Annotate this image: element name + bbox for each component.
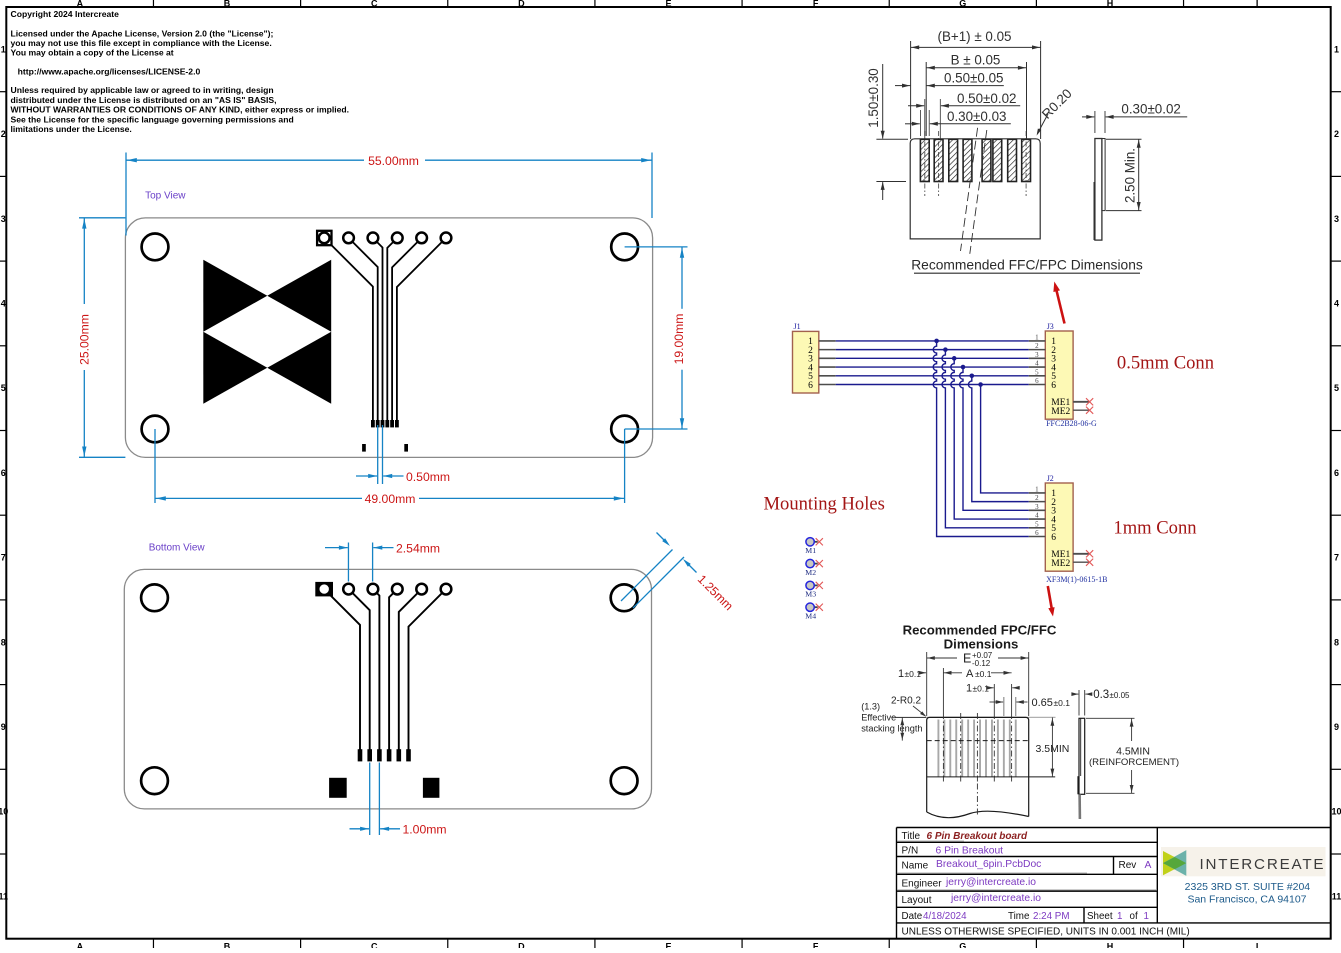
svg-text:B ± 0.05: B ± 0.05 bbox=[951, 53, 1001, 68]
svg-text:jerry@intercreate.io: jerry@intercreate.io bbox=[950, 893, 1041, 904]
svg-text:Sheet: Sheet bbox=[1087, 911, 1113, 922]
svg-text:1: 1 bbox=[1144, 911, 1149, 922]
svg-text:Effective: Effective bbox=[861, 713, 896, 723]
svg-text:http://www.apache.org/licenses: http://www.apache.org/licenses/LICENSE-2… bbox=[11, 67, 201, 77]
svg-text:E: E bbox=[963, 652, 971, 666]
svg-text:jerry@intercreate.io: jerry@intercreate.io bbox=[945, 877, 1036, 888]
svg-text:7: 7 bbox=[1334, 553, 1339, 563]
svg-text:Top View: Top View bbox=[145, 191, 186, 202]
svg-text:M1: M1 bbox=[805, 546, 816, 555]
svg-text:C: C bbox=[371, 942, 378, 949]
svg-text:You may obtain a copy of the L: You may obtain a copy of the License at bbox=[11, 48, 174, 58]
svg-text:1: 1 bbox=[1035, 333, 1039, 341]
svg-text:Layout: Layout bbox=[902, 895, 932, 906]
svg-text:ME2: ME2 bbox=[1051, 407, 1070, 417]
svg-text:0.30±0.02: 0.30±0.02 bbox=[1121, 102, 1180, 117]
svg-text:3: 3 bbox=[1334, 214, 1339, 224]
svg-text:4: 4 bbox=[1035, 360, 1039, 368]
svg-text:I: I bbox=[1256, 0, 1259, 9]
svg-text:3: 3 bbox=[1035, 503, 1039, 511]
svg-text:6: 6 bbox=[1334, 468, 1339, 478]
svg-text:6: 6 bbox=[1051, 381, 1056, 391]
svg-text:6: 6 bbox=[1, 468, 6, 478]
svg-text:D: D bbox=[518, 0, 525, 9]
svg-text:G: G bbox=[959, 942, 966, 949]
svg-text:E: E bbox=[665, 0, 671, 9]
svg-text:Licensed under the Apache Lice: Licensed under the Apache License, Versi… bbox=[11, 28, 274, 38]
svg-text:1: 1 bbox=[1117, 911, 1122, 922]
svg-text:Recommended FFC/FPC Dimensions: Recommended FFC/FPC Dimensions bbox=[911, 258, 1143, 273]
svg-text:25.00mm: 25.00mm bbox=[78, 314, 92, 365]
svg-text:6: 6 bbox=[1035, 377, 1039, 385]
svg-text:0.50±0.05: 0.50±0.05 bbox=[944, 71, 1003, 86]
svg-text:2325 3RD ST. SUITE #204: 2325 3RD ST. SUITE #204 bbox=[1185, 881, 1311, 893]
svg-text:5: 5 bbox=[1, 383, 6, 393]
svg-text:0.5mm Conn: 0.5mm Conn bbox=[1117, 352, 1215, 373]
svg-text:Name: Name bbox=[902, 861, 929, 872]
svg-text:(B+1) ± 0.05: (B+1) ± 0.05 bbox=[938, 29, 1012, 44]
svg-text:I: I bbox=[1256, 942, 1259, 949]
svg-text:1.00mm: 1.00mm bbox=[403, 823, 447, 837]
svg-text:Copyright 2024 Intercreate: Copyright 2024 Intercreate bbox=[11, 9, 120, 19]
svg-text:(REINFORCEMENT): (REINFORCEMENT) bbox=[1089, 757, 1179, 768]
svg-text:1: 1 bbox=[1, 44, 6, 54]
svg-text:Bottom View: Bottom View bbox=[149, 543, 206, 554]
svg-text:±0.1: ±0.1 bbox=[1054, 698, 1071, 708]
svg-text:1.50±0.30: 1.50±0.30 bbox=[866, 68, 881, 127]
svg-text:6: 6 bbox=[1035, 529, 1039, 537]
svg-text:1mm Conn: 1mm Conn bbox=[1113, 518, 1197, 539]
svg-text:Breakout_6pin.PcbDoc: Breakout_6pin.PcbDoc bbox=[936, 859, 1041, 870]
svg-text:55.00mm: 55.00mm bbox=[368, 154, 419, 168]
svg-text:49.00mm: 49.00mm bbox=[365, 492, 416, 506]
svg-text:Rev: Rev bbox=[1119, 860, 1137, 871]
svg-text:A: A bbox=[1145, 860, 1152, 871]
svg-text:2: 2 bbox=[1035, 342, 1039, 350]
svg-text:Time: Time bbox=[1008, 911, 1030, 922]
svg-text:F: F bbox=[813, 942, 819, 949]
svg-text:INTERCREATE: INTERCREATE bbox=[1200, 856, 1326, 873]
svg-text:WITHOUT WARRANTIES OR CONDITIO: WITHOUT WARRANTIES OR CONDITIONS OF ANY … bbox=[11, 105, 350, 115]
svg-text:UNLESS OTHERWISE SPECIFIED, UN: UNLESS OTHERWISE SPECIFIED, UNITS IN 0.0… bbox=[902, 927, 1190, 938]
svg-text:5: 5 bbox=[1035, 520, 1039, 528]
svg-text:J2: J2 bbox=[1047, 474, 1054, 483]
svg-text:(1.3): (1.3) bbox=[861, 702, 880, 712]
svg-text:J3: J3 bbox=[1047, 322, 1054, 331]
svg-text:1: 1 bbox=[898, 668, 904, 680]
svg-text:Recommended FPC/FFC: Recommended FPC/FFC bbox=[903, 623, 1057, 638]
svg-text:3: 3 bbox=[1035, 351, 1039, 359]
svg-text:0.30±0.03: 0.30±0.03 bbox=[947, 109, 1006, 124]
svg-text:4: 4 bbox=[1035, 512, 1039, 520]
svg-text:limitations under the License.: limitations under the License. bbox=[11, 124, 132, 134]
svg-text:San Francisco, CA 94107: San Francisco, CA 94107 bbox=[1187, 894, 1306, 906]
svg-text:P/N: P/N bbox=[902, 845, 919, 856]
svg-text:5: 5 bbox=[1334, 383, 1339, 393]
svg-text:D: D bbox=[518, 942, 525, 949]
svg-text:±0.05: ±0.05 bbox=[1110, 691, 1131, 700]
svg-text:M4: M4 bbox=[805, 611, 816, 620]
svg-text:6 Pin Breakout board: 6 Pin Breakout board bbox=[927, 831, 1028, 842]
svg-text:J1: J1 bbox=[794, 322, 801, 331]
svg-text:3: 3 bbox=[1, 214, 6, 224]
svg-text:4/18/2024: 4/18/2024 bbox=[923, 911, 967, 922]
svg-text:FFC2B28-06-G: FFC2B28-06-G bbox=[1046, 419, 1097, 428]
svg-text:2: 2 bbox=[1035, 494, 1039, 502]
svg-text:XF3M(1)-0615-1B: XF3M(1)-0615-1B bbox=[1046, 575, 1107, 584]
svg-text:stacking length: stacking length bbox=[861, 724, 922, 734]
svg-text:10: 10 bbox=[0, 807, 8, 817]
svg-text:2: 2 bbox=[1, 129, 6, 139]
svg-text:2.50 Min.: 2.50 Min. bbox=[1123, 148, 1138, 203]
svg-text:3.5MIN: 3.5MIN bbox=[1036, 743, 1070, 755]
svg-text:-0.12: -0.12 bbox=[972, 659, 991, 668]
svg-text:0.50mm: 0.50mm bbox=[406, 470, 450, 484]
svg-text:8: 8 bbox=[1334, 637, 1339, 647]
svg-text:9: 9 bbox=[1334, 722, 1339, 732]
svg-text:Dimensions: Dimensions bbox=[944, 637, 1019, 652]
svg-text:4: 4 bbox=[1, 298, 6, 308]
svg-text:6: 6 bbox=[1051, 533, 1056, 543]
svg-text:See the License for the specif: See the License for the specific languag… bbox=[11, 114, 294, 124]
svg-text:6: 6 bbox=[808, 381, 813, 391]
svg-text:9: 9 bbox=[1, 722, 6, 732]
svg-text:2-R0.2: 2-R0.2 bbox=[891, 696, 921, 707]
svg-text:1: 1 bbox=[1035, 485, 1039, 493]
svg-text:19.00mm: 19.00mm bbox=[672, 314, 686, 365]
svg-text:Date: Date bbox=[902, 911, 923, 922]
svg-text:distributed under the License: distributed under the License is distrib… bbox=[11, 95, 277, 105]
svg-text:A: A bbox=[77, 942, 84, 949]
svg-text:E: E bbox=[665, 942, 671, 949]
svg-text:±0.1: ±0.1 bbox=[975, 669, 992, 679]
svg-text:10: 10 bbox=[1331, 807, 1341, 817]
svg-text:7: 7 bbox=[1, 553, 6, 563]
svg-text:2: 2 bbox=[1334, 129, 1339, 139]
svg-text:H: H bbox=[1107, 942, 1114, 949]
svg-text:of: of bbox=[1130, 911, 1138, 922]
svg-text:2:24 PM: 2:24 PM bbox=[1033, 911, 1070, 922]
svg-text:ME2: ME2 bbox=[1051, 559, 1070, 569]
svg-text:6 Pin Breakout: 6 Pin Breakout bbox=[936, 845, 1004, 856]
svg-text:1: 1 bbox=[1334, 44, 1339, 54]
svg-text:2.54mm: 2.54mm bbox=[396, 541, 440, 555]
svg-text:0.65: 0.65 bbox=[1032, 697, 1053, 709]
svg-text:M2: M2 bbox=[805, 568, 816, 577]
svg-text:G: G bbox=[959, 0, 966, 9]
svg-text:Unless required by applicable: Unless required by applicable law or agr… bbox=[11, 85, 274, 95]
svg-text:A: A bbox=[77, 0, 84, 9]
svg-text:Mounting Holes: Mounting Holes bbox=[764, 493, 885, 514]
svg-text:4.5MIN: 4.5MIN bbox=[1116, 745, 1150, 757]
svg-text:11: 11 bbox=[0, 891, 8, 901]
svg-text:0.3: 0.3 bbox=[1093, 689, 1109, 701]
svg-text:H: H bbox=[1107, 0, 1114, 9]
svg-text:Title: Title bbox=[902, 831, 921, 842]
svg-text:A: A bbox=[966, 668, 974, 680]
svg-text:M3: M3 bbox=[805, 590, 816, 599]
svg-text:Engineer: Engineer bbox=[902, 878, 943, 889]
svg-text:1: 1 bbox=[966, 683, 972, 695]
svg-text:you may not use this file exce: you may not use this file except in comp… bbox=[11, 38, 272, 48]
svg-text:F: F bbox=[813, 0, 819, 9]
svg-text:8: 8 bbox=[1, 637, 6, 647]
svg-text:B: B bbox=[224, 942, 231, 949]
svg-text:4: 4 bbox=[1334, 298, 1339, 308]
svg-text:0.50±0.02: 0.50±0.02 bbox=[957, 91, 1016, 106]
svg-text:11: 11 bbox=[1332, 891, 1341, 901]
svg-text:5: 5 bbox=[1035, 368, 1039, 376]
svg-text:C: C bbox=[371, 0, 378, 9]
svg-text:B: B bbox=[224, 0, 231, 9]
